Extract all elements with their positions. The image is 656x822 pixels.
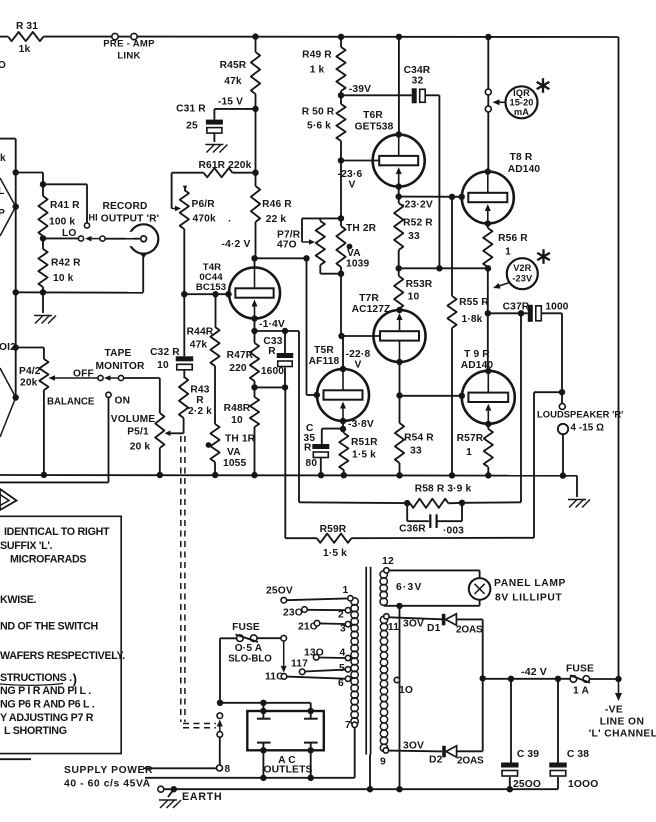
terminal 117	[299, 669, 345, 675]
svg-text:R53R: R53R	[406, 279, 433, 290]
label OI2	[0, 342, 16, 353]
label -VE LINE	[589, 705, 656, 740]
svg-text:R 50 R: R 50 R	[302, 107, 335, 118]
wire outlets feed	[220, 700, 314, 715]
svg-text:VA: VA	[347, 248, 361, 259]
svg-text:-15 V: -15 V	[218, 97, 243, 108]
svg-text:TAPE: TAPE	[104, 348, 131, 359]
svg-text:3OV: 3OV	[403, 741, 424, 752]
svg-text:STRUCTIONS .: STRUCTIONS .	[0, 672, 72, 684]
wire -1.4V node	[255, 328, 300, 503]
svg-text:5: 5	[339, 663, 345, 674]
svg-text:47k: 47k	[190, 340, 208, 351]
wire T6 emitter	[396, 183, 402, 199]
svg-text:TH 2R: TH 2R	[346, 223, 377, 234]
svg-text:7: 7	[345, 720, 351, 731]
svg-text:SUPPLY POWER: SUPPLY POWER	[64, 765, 153, 776]
wire C37 to speaker	[541, 313, 565, 403]
resistor R61R	[172, 160, 256, 177]
label -1.4V	[259, 319, 285, 330]
svg-text:FUSE: FUSE	[232, 622, 260, 633]
label -3.8V	[348, 419, 374, 430]
wire mains live column	[217, 638, 223, 706]
svg-text:OUTLETS: OUTLETS	[263, 764, 312, 775]
wire R42 ground row	[16, 289, 143, 313]
svg-text:R 31: R 31	[16, 21, 38, 32]
svg-text:BC153: BC153	[196, 282, 226, 293]
svg-text:1k: 1k	[19, 44, 31, 55]
svg-text:'L' CHANNEL: 'L' CHANNEL	[589, 729, 656, 740]
wire LO to jack	[85, 236, 139, 242]
terminal ON	[106, 392, 130, 406]
wire R61 to P6 wiper	[171, 173, 173, 209]
wire P4 wiper OFF	[49, 375, 99, 381]
svg-text:OI2: OI2	[0, 342, 16, 353]
label P	[0, 208, 5, 219]
svg-text:LINE ON: LINE ON	[600, 717, 645, 728]
svg-text:C32 R: C32 R	[150, 347, 180, 358]
svg-text:R: R	[304, 443, 312, 454]
svg-text:SLO-BLO: SLO-BLO	[228, 654, 272, 665]
potentiometer P5/1	[155, 378, 171, 475]
wire D1 out	[456, 619, 482, 678]
resistor R55R	[447, 197, 489, 476]
svg-text:5·6 k: 5·6 k	[307, 121, 331, 132]
wire earth bus	[164, 786, 558, 792]
svg-text:4 -15 Ω: 4 -15 Ω	[571, 423, 605, 434]
terminal speaker upper	[559, 404, 565, 410]
svg-text:OUTPUT 'R': OUTPUT 'R'	[101, 214, 159, 225]
svg-text:T 9 R: T 9 R	[464, 349, 490, 360]
svg-text:R: R	[196, 395, 204, 406]
svg-text:VOLUME: VOLUME	[111, 414, 156, 425]
label 30V top	[403, 619, 424, 630]
wire left rail	[0, 139, 16, 398]
wire C34 to bus drop	[425, 95, 439, 268]
label -23.2V	[401, 200, 433, 211]
svg-text:-VE: -VE	[605, 705, 623, 716]
svg-text:-4·2 V: -4·2 V	[222, 239, 251, 250]
terminal OFF a	[98, 375, 103, 380]
svg-text:IDENTICAL TO RIGHT: IDENTICAL TO RIGHT	[4, 526, 110, 538]
wire top -39V bus	[0, 36, 619, 38]
pre-amp link terminals	[103, 33, 155, 61]
svg-text:L SHORTING: L SHORTING	[4, 725, 67, 737]
svg-text:P6/R: P6/R	[192, 199, 216, 210]
svg-text:2·2 k: 2·2 k	[188, 406, 212, 417]
stray line bottom left	[0, 758, 31, 760]
wire T9 base row	[400, 393, 465, 399]
svg-text:R56 R: R56 R	[498, 233, 528, 244]
svg-text:47O: 47O	[277, 240, 297, 251]
transformer core	[366, 567, 370, 755]
label TAPE MONITOR	[96, 348, 145, 372]
label 130	[304, 648, 324, 659]
fuse 1A	[566, 664, 622, 697]
terminal pin9	[380, 748, 389, 768]
svg-text:Y ADJUSTING P7 R: Y ADJUSTING P7 R	[0, 712, 94, 724]
svg-text:R58 R 3·9 k: R58 R 3·9 k	[415, 484, 472, 495]
svg-text:C34R: C34R	[404, 65, 431, 76]
diode D2	[389, 746, 484, 767]
resistor R57R	[457, 429, 493, 475]
svg-text:100 k: 100 k	[49, 217, 75, 228]
notes text box	[0, 516, 125, 753]
linkage dashed to mains switch	[181, 436, 216, 728]
svg-text:1055: 1055	[223, 458, 246, 469]
svg-text:ND OF THE SWITCH: ND OF THE SWITCH	[0, 621, 98, 633]
svg-text:1 k: 1 k	[310, 65, 325, 76]
meter IQR	[493, 86, 538, 118]
wire T4 collector	[251, 255, 257, 267]
resistor R45R	[220, 37, 260, 109]
wire R58 to C37 node	[462, 501, 521, 504]
svg-text:470k: 470k	[193, 214, 216, 225]
svg-text:R: R	[268, 346, 276, 357]
svg-text:IQR: IQR	[513, 88, 530, 98]
svg-text:2: 2	[338, 610, 344, 621]
node left rail dots	[13, 169, 19, 400]
capacitor C32R	[150, 294, 193, 371]
node -23V bus	[396, 265, 492, 271]
wire OFF link	[104, 375, 119, 381]
svg-text:ON: ON	[115, 396, 131, 407]
wire T8 emitter	[485, 220, 491, 228]
meter V2R	[493, 258, 538, 289]
label 117	[291, 659, 308, 670]
potentiometer P4/2	[16, 348, 49, 476]
terminal HI	[84, 213, 97, 229]
resistor R43R	[179, 370, 212, 433]
wire P7 TH2 top row	[302, 161, 344, 222]
svg-text:T5R: T5R	[314, 345, 334, 356]
svg-text:O: O	[0, 60, 6, 71]
svg-text:1000: 1000	[545, 302, 568, 313]
svg-text:R44R: R44R	[187, 327, 214, 338]
svg-text:-42 V: -42 V	[521, 666, 547, 678]
svg-text:-1·4V: -1·4V	[259, 319, 285, 330]
resistor R56R	[483, 228, 528, 267]
node R61 junction	[252, 170, 258, 176]
svg-text:OFF: OFF	[73, 369, 94, 380]
ground below C31	[205, 145, 227, 153]
ground bus right	[568, 500, 590, 508]
svg-text:P4/2: P4/2	[19, 366, 41, 377]
capacitor C35R	[304, 423, 344, 475]
potentiometer P6/R	[172, 187, 231, 295]
svg-text:LOUDSPEAKER 'R': LOUDSPEAKER 'R'	[537, 409, 623, 420]
svg-text:C31 R: C31 R	[176, 104, 206, 115]
label -4.2V	[222, 239, 251, 250]
capacitor C39	[501, 679, 541, 793]
node LO junction	[40, 235, 46, 241]
svg-text:R48R: R48R	[224, 403, 251, 414]
label PANEL LAMP	[494, 578, 566, 604]
wire R56 to C37 drop	[485, 268, 491, 316]
svg-text:): )	[73, 672, 78, 687]
label T9R	[461, 349, 494, 371]
svg-text:NG P6 R AND P6 L .: NG P6 R AND P6 L .	[0, 699, 95, 711]
resistor R48R	[224, 387, 259, 475]
node rectifier junction	[480, 675, 486, 681]
wire C34 row	[341, 94, 412, 96]
svg-text:MICROFARADS: MICROFARADS	[10, 554, 86, 566]
label L	[0, 186, 4, 197]
svg-text:MONITOR: MONITOR	[96, 361, 145, 372]
wire centre tap drop	[399, 606, 401, 789]
wire -4.2V node	[255, 255, 310, 395]
label -23.6V	[338, 169, 363, 191]
transformer primary	[351, 598, 358, 725]
terminal earth	[158, 786, 164, 792]
svg-text:TH 1R: TH 1R	[225, 434, 256, 445]
wire C33 feedback drop	[284, 387, 286, 538]
wire -42V rail	[483, 666, 571, 682]
svg-text:1600: 1600	[261, 366, 284, 377]
label T4R	[196, 262, 226, 293]
svg-text:1: 1	[466, 447, 472, 458]
label T5R	[309, 345, 340, 367]
svg-text:k: k	[0, 153, 6, 164]
switch mains on-off	[217, 713, 223, 765]
svg-text:C 39: C 39	[517, 749, 539, 760]
svg-text:23O: 23O	[283, 608, 303, 619]
svg-text:C 38: C 38	[567, 749, 589, 760]
label VOLUME	[111, 414, 156, 453]
wire T7 emitter top	[396, 307, 402, 313]
svg-text:SUFFIX 'L'.: SUFFIX 'L'.	[0, 540, 53, 552]
svg-text:2OAS: 2OAS	[456, 625, 483, 636]
svg-text:NG P I R AND PI L .: NG P I R AND PI L .	[0, 685, 91, 697]
svg-text:40 - 60 c/s 45VA: 40 - 60 c/s 45VA	[64, 779, 151, 790]
wire T9 emitter	[485, 421, 491, 429]
svg-text:GET538: GET538	[355, 122, 394, 133]
svg-text:R42 R: R42 R	[51, 258, 81, 269]
thermistor TH1R	[206, 424, 256, 475]
wire outlets to neutral	[260, 747, 314, 781]
svg-text:10: 10	[231, 415, 243, 426]
svg-text:-39V: -39V	[349, 84, 371, 95]
wire speaker feedback tap	[534, 392, 562, 538]
svg-text:25OV: 25OV	[266, 586, 293, 597]
terminal pin4	[340, 648, 351, 661]
svg-text:O·5 A: O·5 A	[235, 643, 263, 654]
transformer 6.3V winding	[380, 571, 423, 606]
terminal OFF b	[118, 375, 159, 380]
resistor R58R	[299, 484, 471, 508]
lamp panel	[469, 578, 491, 600]
svg-text:1 A: 1 A	[573, 686, 590, 697]
svg-text:1O: 1O	[399, 685, 413, 696]
resistor R50R	[302, 95, 346, 160]
wire speaker return	[560, 434, 566, 479]
svg-text:2OAS: 2OAS	[457, 756, 484, 767]
svg-text:1039: 1039	[346, 259, 369, 270]
svg-text:WAFERS RESPECTIVELY.: WAFERS RESPECTIVELY.	[0, 650, 125, 662]
svg-text:R45R: R45R	[220, 60, 247, 71]
svg-text:V: V	[348, 180, 355, 191]
box AC outlets	[247, 711, 323, 750]
wire ON drop	[0, 397, 109, 482]
resistor R49R	[302, 37, 345, 96]
terminal 250V	[281, 597, 348, 603]
terminal 8 supply	[217, 764, 231, 775]
svg-text:3: 3	[340, 624, 346, 635]
svg-text:mA: mA	[514, 107, 529, 117]
node bus dots	[41, 472, 492, 479]
terminal 210	[314, 620, 345, 626]
label EARTH	[182, 791, 223, 803]
svg-text:25: 25	[186, 121, 198, 132]
terminal pin5	[339, 663, 351, 674]
svg-text:P5/1: P5/1	[127, 427, 149, 438]
label T7R	[352, 293, 391, 315]
label RECORD OUTPUT	[101, 201, 159, 225]
svg-text:R49 R: R49 R	[302, 50, 332, 61]
svg-text:KWISE.: KWISE.	[0, 594, 37, 606]
wire right border	[618, 37, 620, 679]
svg-text:P: P	[0, 208, 5, 219]
svg-text:R61R 220k: R61R 220k	[199, 160, 252, 171]
label AC OUTLETS	[263, 755, 312, 775]
svg-text:LO: LO	[62, 228, 76, 239]
svg-text:1·5 k: 1·5 k	[323, 548, 347, 559]
transistor T7R	[374, 310, 426, 362]
svg-text:R51R: R51R	[351, 437, 378, 448]
transistor T9R	[462, 371, 515, 424]
wire T7 collector	[396, 359, 402, 399]
svg-text:-22·8: -22·8	[346, 349, 371, 360]
wire C37 row	[488, 310, 528, 316]
label 250V	[266, 586, 293, 597]
node -15V junction	[218, 97, 259, 113]
svg-text:R54 R: R54 R	[404, 433, 434, 444]
svg-text:9: 9	[380, 757, 386, 768]
svg-text:33: 33	[410, 446, 422, 457]
letter O cropped	[0, 60, 6, 71]
asterisk V2R	[537, 249, 550, 264]
svg-text:1·8k: 1·8k	[462, 314, 483, 325]
label BALANCE	[47, 397, 95, 408]
svg-text:32: 32	[412, 76, 424, 87]
wire bus ground stub	[576, 476, 578, 497]
diode D1	[389, 614, 483, 636]
resistor R59R	[285, 524, 534, 559]
wire C37 feedback drop	[520, 313, 522, 502]
svg-text:47k: 47k	[224, 76, 242, 87]
wire T8 base row	[399, 194, 465, 200]
svg-text:PRE - AMP: PRE - AMP	[103, 39, 155, 50]
jack RECORD OUTPUT R	[120, 224, 158, 292]
wire T5 emitter	[340, 418, 346, 432]
terminal 130	[313, 655, 345, 661]
ground earth symbol	[159, 789, 181, 808]
terminal pin12	[382, 556, 394, 573]
svg-text:R43: R43	[190, 385, 209, 396]
capacitor C34R	[404, 65, 431, 103]
resistor R53R	[394, 268, 433, 310]
terminal pin2	[338, 608, 351, 621]
transistor T5R	[317, 369, 369, 421]
resistor R41R	[38, 184, 80, 238]
terminal selector common	[281, 635, 287, 641]
resistor R51R	[339, 429, 378, 475]
svg-text:D1: D1	[427, 623, 441, 634]
svg-text:-23·2V: -23·2V	[401, 200, 433, 211]
svg-text:VA: VA	[227, 447, 241, 458]
svg-text:·003: ·003	[443, 526, 464, 537]
svg-text:80: 80	[306, 458, 318, 469]
wire pin7 to neutral	[145, 728, 355, 778]
wire LO row	[45, 237, 79, 239]
svg-text:RECORD: RECORD	[102, 201, 147, 212]
svg-text:T8 R: T8 R	[510, 152, 533, 163]
wire T7 base	[342, 335, 381, 337]
svg-text:3OV: 3OV	[403, 619, 424, 630]
resistor R47R	[227, 331, 259, 387]
svg-text:PANEL LAMP: PANEL LAMP	[494, 578, 566, 589]
wire T6 collector from bus	[398, 37, 400, 135]
transformer HT winding	[380, 616, 387, 751]
svg-text:10 k: 10 k	[53, 273, 74, 284]
svg-text:R46 R: R46 R	[262, 199, 292, 210]
svg-text:C37R: C37R	[503, 302, 530, 313]
svg-text:BALANCE: BALANCE	[47, 397, 95, 408]
svg-text:1: 1	[343, 585, 349, 596]
wire T7 base drop	[338, 274, 344, 339]
svg-text:1OOO: 1OOO	[568, 779, 598, 790]
terminal pin7	[345, 720, 357, 731]
wire switch wafer diagonals lower	[0, 368, 16, 437]
label T6R	[355, 110, 394, 133]
wire supply power lead	[143, 767, 217, 769]
ground below R42	[34, 316, 56, 324]
resistor R52R	[394, 197, 433, 269]
svg-text:AF118: AF118	[309, 356, 340, 367]
svg-text:D2: D2	[429, 755, 443, 766]
node -39V	[338, 84, 371, 99]
svg-text:T6R: T6R	[363, 110, 383, 121]
fuse mains	[220, 622, 281, 665]
transistor T8R	[462, 168, 514, 223]
resistor R44R	[187, 294, 220, 424]
capacitor C38	[549, 679, 598, 790]
svg-text:8: 8	[225, 764, 231, 775]
svg-text:22 k: 22 k	[266, 214, 287, 225]
svg-text:V: V	[354, 360, 361, 371]
svg-text:20 k: 20 k	[130, 442, 151, 453]
capacitor C37R	[503, 302, 569, 322]
svg-text:R52 R: R52 R	[403, 218, 433, 229]
label T8R	[508, 152, 541, 175]
svg-text:C36R: C36R	[399, 524, 426, 535]
warning triangle	[0, 489, 17, 510]
wire T9 collector	[485, 313, 491, 374]
svg-text:1: 1	[505, 247, 511, 258]
terminal speaker lower	[558, 423, 604, 435]
wire core earth drop	[369, 755, 371, 790]
svg-text:LINK: LINK	[117, 51, 140, 62]
wire HI stub	[86, 184, 88, 223]
label -22.8V	[346, 349, 371, 371]
resistor R31	[8, 21, 44, 55]
svg-text:10: 10	[157, 360, 169, 371]
label LOUDSPEAKER	[537, 409, 623, 420]
potentiometer P7/R	[277, 218, 341, 273]
wire R41 feed	[16, 173, 87, 188]
svg-text:4: 4	[340, 648, 346, 659]
capacitor C36R	[399, 503, 464, 537]
